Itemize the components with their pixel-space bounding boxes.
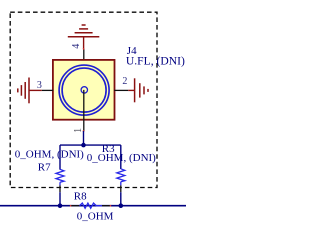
- svg-text:0_OHM, (DNI): 0_OHM, (DNI): [15, 148, 84, 160]
- junction node R3/bus: [119, 203, 124, 208]
- wire to R7 top: [59, 145, 61, 170]
- svg-text:R7: R7: [38, 162, 51, 174]
- R3 pin lower black: [120, 185, 122, 192]
- pin 1 of J4 (bottom, from center pin): [83, 90, 85, 131]
- R7 lead lower: [59, 182, 61, 185]
- ground right (bars to the right): [128, 78, 148, 102]
- wire horizontal junction row: [60, 144, 121, 146]
- wire pin1 to junction: [83, 131, 85, 145]
- R8 pin right end dot: [110, 205, 112, 207]
- R8 pin left black: [70, 205, 79, 207]
- svg-text:1: 1: [73, 128, 84, 133]
- resistor R8 (horizontal zigzag): [80, 203, 103, 208]
- svg-text:3: 3: [37, 80, 42, 91]
- resistor R7 (vertical zigzag): [56, 169, 64, 182]
- junction node R7/bus: [58, 203, 63, 208]
- pin 4 end dot: [83, 48, 85, 50]
- junction node: [81, 143, 86, 148]
- svg-text:0_OHM, (DNI): 0_OHM, (DNI): [87, 152, 156, 164]
- pin 2 of J4 (right): [114, 89, 128, 91]
- R7 pin lower black: [59, 185, 61, 192]
- svg-text:2: 2: [122, 76, 127, 87]
- R3 lead lower: [120, 182, 122, 186]
- J4 center pin circle: [81, 87, 87, 93]
- DNI dashed outline box: [10, 12, 157, 187]
- J4 coax outer ring: [59, 65, 109, 115]
- wire R7 to bus: [59, 192, 61, 206]
- bottom bus wire: [0, 205, 186, 207]
- R8 pin right black: [102, 205, 111, 207]
- ground left (bars to the left): [18, 78, 42, 104]
- wire R3 to bus: [120, 192, 122, 206]
- svg-text:R8: R8: [74, 190, 87, 202]
- resistor R3 (vertical zigzag): [117, 169, 125, 182]
- wire to R3 top: [120, 145, 122, 169]
- J4 coax inner ring: [62, 68, 106, 112]
- R8 pin left end dot: [70, 205, 72, 207]
- svg-text:U.FL, (DNI): U.FL, (DNI): [126, 55, 185, 68]
- ground GND top (rotated, bars up): [68, 25, 100, 49]
- pin 4 of J4 (top): [83, 49, 85, 61]
- pin 3 of J4 (left): [42, 89, 53, 91]
- svg-text:0_OHM: 0_OHM: [77, 211, 114, 223]
- pin 1 end dot: [83, 130, 85, 132]
- svg-text:4: 4: [71, 44, 82, 49]
- connector J4 body (yellow box): [53, 60, 115, 120]
